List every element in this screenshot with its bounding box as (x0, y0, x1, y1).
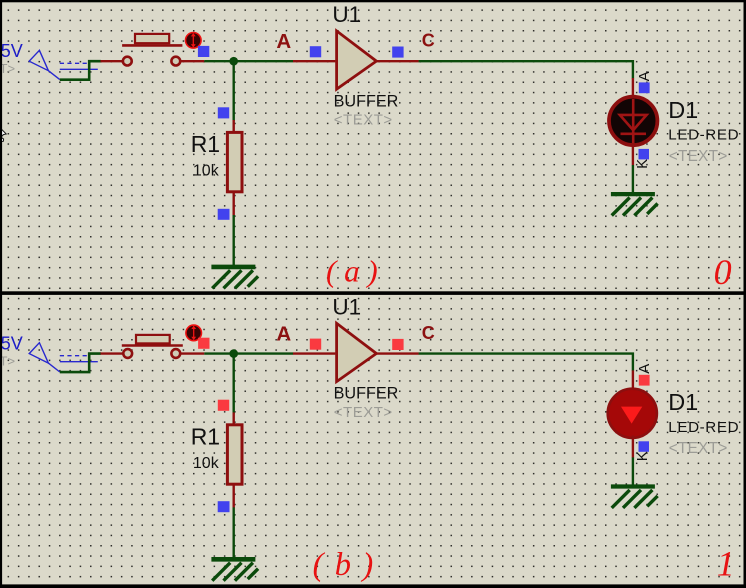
svg-text:LED-RED: LED-RED (668, 419, 739, 436)
junction node dot (a) (229, 57, 238, 66)
svg-text:10k: 10k (193, 455, 220, 472)
wire pin R1 top (b) (232, 412, 234, 425)
svg-text:K: K (634, 451, 651, 461)
wire pin LED top (b) (632, 370, 634, 391)
resistor R1 body (b) (227, 425, 242, 484)
wire pin from switch right contact (a) (180, 60, 204, 62)
logic probe square LED cathode blue (b) (639, 441, 650, 452)
buffer U1 triangle body (b) (337, 323, 377, 381)
wire buffer output to LED (b) (419, 354, 633, 371)
wire pin buffer input (b) (293, 352, 335, 354)
svg-text:5V: 5V (1, 41, 23, 61)
logic probe square at switch output red (b) (198, 338, 209, 349)
wire buffer output to LED (a) (419, 61, 633, 78)
wire pin to switch left contact (b) (101, 352, 124, 354)
junction node dot (b) (229, 349, 238, 358)
power terminal arrow symbol (b) (29, 343, 98, 372)
LED D1 lit triangle (b) (621, 407, 642, 424)
LED D1 body circle off-state (a) (609, 97, 657, 145)
svg-text:A: A (276, 30, 291, 53)
svg-text:5V: 5V (1, 333, 23, 353)
logic probe square at buffer input red (b) (310, 339, 321, 350)
svg-text:LED-RED: LED-RED (668, 127, 739, 144)
ground symbol under LED (b) (611, 487, 658, 508)
ground symbol under LED (a) (611, 194, 658, 215)
ground symbol under R1 (a) (211, 267, 258, 288)
svg-text:T>: T> (0, 61, 15, 76)
wire switch to junction to buffer (a) (204, 60, 293, 62)
wire R1 to ground (b) (232, 507, 234, 558)
push button plunger cap pressed (b) (136, 335, 170, 344)
logic probe square at buffer input blue (a) (310, 46, 321, 57)
svg-text:BUFFER: BUFFER (334, 92, 399, 110)
wire junction down to R1 (a) (232, 61, 234, 121)
ground symbol under R1 (b) (211, 559, 258, 580)
push button actuator toggle (b) (186, 325, 202, 341)
svg-text:T>: T> (0, 353, 15, 368)
wire pin R1 bottom (a) (232, 192, 234, 216)
wire pin buffer output (a) (377, 60, 419, 62)
wire R1 to ground (a) (232, 215, 234, 266)
svg-text:U1: U1 (332, 295, 361, 320)
wire pin LED bottom (b) (632, 435, 634, 457)
logic probe square above R1 red (b) (218, 400, 229, 411)
LED D1 diode symbol (a) (620, 99, 647, 144)
panel divider line (0, 291, 746, 295)
svg-text:R1: R1 (191, 423, 220, 449)
logic probe square at buffer output red (b) (392, 339, 403, 350)
svg-text:A: A (636, 71, 653, 81)
LED D1 body circle lit-state (b) (608, 389, 657, 438)
svg-text:<TEXT>: <TEXT> (669, 440, 728, 457)
wire pin R1 top (a) (232, 120, 234, 133)
svg-text:( a ): ( a ) (326, 254, 378, 289)
svg-text:A: A (636, 364, 653, 374)
svg-text:D1: D1 (668, 97, 698, 123)
logic probe square LED anode red (b) (639, 375, 650, 386)
svg-text:( b ): ( b ) (313, 547, 375, 583)
svg-text:C: C (422, 323, 435, 343)
logic probe square below R1 blue (b) (218, 501, 230, 512)
push button actuator toggle (a) (186, 33, 202, 49)
svg-text:C: C (422, 31, 435, 51)
svg-text:D1: D1 (668, 389, 698, 415)
mouse cursor artifact at left edge (a) (2, 129, 7, 141)
svg-text:10k: 10k (193, 163, 220, 180)
wire LED to ground (a) (632, 165, 634, 193)
svg-text:BUFFER: BUFFER (334, 385, 399, 403)
push button SW contacts pressed (b) (123, 349, 180, 358)
logic probe square LED anode blue (a) (639, 82, 650, 93)
logic probe square at buffer output blue (a) (392, 47, 403, 58)
svg-text:0: 0 (714, 252, 732, 292)
wire power hook (a) (60, 61, 101, 79)
svg-text:1: 1 (717, 543, 735, 583)
wire pin LED top (a) (632, 78, 634, 99)
wire pin to switch left contact (a) (101, 60, 124, 62)
wire LED to ground (b) (632, 457, 634, 485)
wire pin R1 bottom (b) (232, 484, 234, 508)
svg-text:<TEXT>: <TEXT> (669, 148, 728, 165)
logic probe square above R1 blue (a) (218, 107, 229, 118)
logic probe square at switch output blue (a) (198, 46, 209, 57)
wire power hook (b) (60, 354, 101, 373)
wire pin buffer input (a) (293, 60, 335, 62)
wire pin buffer output (b) (377, 352, 419, 354)
push button plunger bar (a) (122, 44, 182, 47)
resistor R1 body (a) (227, 132, 242, 191)
push button SW contacts (a) (123, 57, 180, 66)
push button plunger cap (a) (135, 34, 169, 43)
wire junction down to R1 (b) (232, 354, 234, 414)
svg-text:<TEXT>: <TEXT> (334, 112, 393, 129)
svg-text:<TEXT>: <TEXT> (334, 404, 393, 421)
wire pin LED bottom (a) (632, 143, 634, 165)
buffer U1 triangle body (a) (337, 31, 377, 89)
svg-text:U1: U1 (332, 2, 361, 27)
svg-text:K: K (634, 159, 651, 169)
push button plunger bar pressed (b) (122, 344, 183, 347)
wire pin from switch right contact (b) (180, 352, 204, 354)
svg-text:A: A (276, 323, 291, 346)
wire switch to junction to buffer (b) (204, 352, 293, 354)
power terminal arrow symbol (a) (29, 50, 98, 79)
svg-text:R1: R1 (191, 131, 220, 157)
logic probe square below R1 blue (a) (218, 209, 230, 220)
logic probe square LED cathode blue (a) (639, 149, 650, 160)
